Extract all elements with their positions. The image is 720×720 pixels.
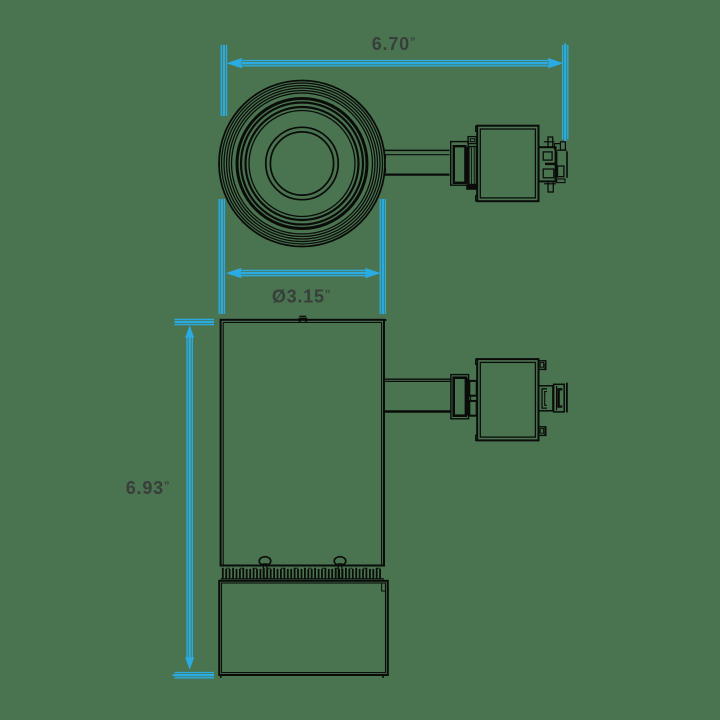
- svg-text:Ø3.15”: Ø3.15”: [272, 287, 331, 307]
- lamp head inner lens ring: [266, 127, 338, 199]
- track contact head top view: upper step blocks: [555, 142, 566, 150]
- dimension extension line bottom of 6.93: [175, 673, 215, 678]
- rivet screw right: [334, 557, 346, 579]
- adapter neck panel top view: [467, 147, 476, 185]
- lamp head reflector rings: [237, 99, 367, 229]
- track contact head top view: bottom tab: [544, 179, 565, 192]
- extension line end dots: [564, 43, 566, 45]
- knurled band bottom lines: [221, 578, 384, 580]
- rivet screw left: [259, 557, 271, 579]
- adapter neck bottom tab top view: [467, 185, 476, 189]
- dimension line 6.70 inch: [227, 58, 564, 68]
- lamp head front view: outer bezel rings: [219, 81, 385, 247]
- corner dots: [220, 676, 222, 678]
- track adapter box top view: [477, 126, 538, 202]
- track contact end line side view: [566, 383, 568, 413]
- dimension extension line top of 6.93: [175, 319, 215, 324]
- track contact head top view: top T-tab: [544, 137, 555, 147]
- adapter bottom-right tab side view: [539, 427, 546, 436]
- stem top view: [385, 150, 450, 174]
- dimension extension line right of diameter 3.15: [380, 199, 385, 314]
- track contact bracket side view: [538, 386, 553, 411]
- knurled adjustment band top line: [221, 565, 384, 567]
- adapter box corner steps top view: [476, 126, 479, 201]
- adapter collar side view: [451, 375, 469, 419]
- adapter neck top tab top view: [468, 137, 477, 144]
- dimension line diameter 3.15 inch: [226, 268, 381, 278]
- adapter top-right tab side view: [539, 361, 546, 371]
- svg-text:6.93”: 6.93”: [126, 478, 171, 498]
- adapter collar top view: [451, 142, 469, 186]
- adapter box corner steps side view: [476, 359, 479, 440]
- dimension extension line left (shared, x=221.8): [219, 45, 226, 314]
- body top nub: [299, 316, 307, 321]
- svg-text:6.70”: 6.70”: [372, 34, 417, 54]
- adapter neck blocks side view: [466, 378, 477, 415]
- dimension line 6.93 inch: [185, 325, 194, 670]
- track contact block side view: [554, 384, 565, 412]
- snoot lower section side view: [219, 581, 388, 675]
- dimension extension line right of 6.70: [563, 45, 568, 140]
- track contact head top view: main body: [539, 147, 556, 181]
- knurled band teeth: [223, 568, 380, 579]
- track adapter box side view: [477, 359, 538, 440]
- track contact head top view: right bracket: [557, 150, 567, 178]
- lamp body side view: [221, 320, 384, 566]
- stem side view: [384, 379, 451, 411]
